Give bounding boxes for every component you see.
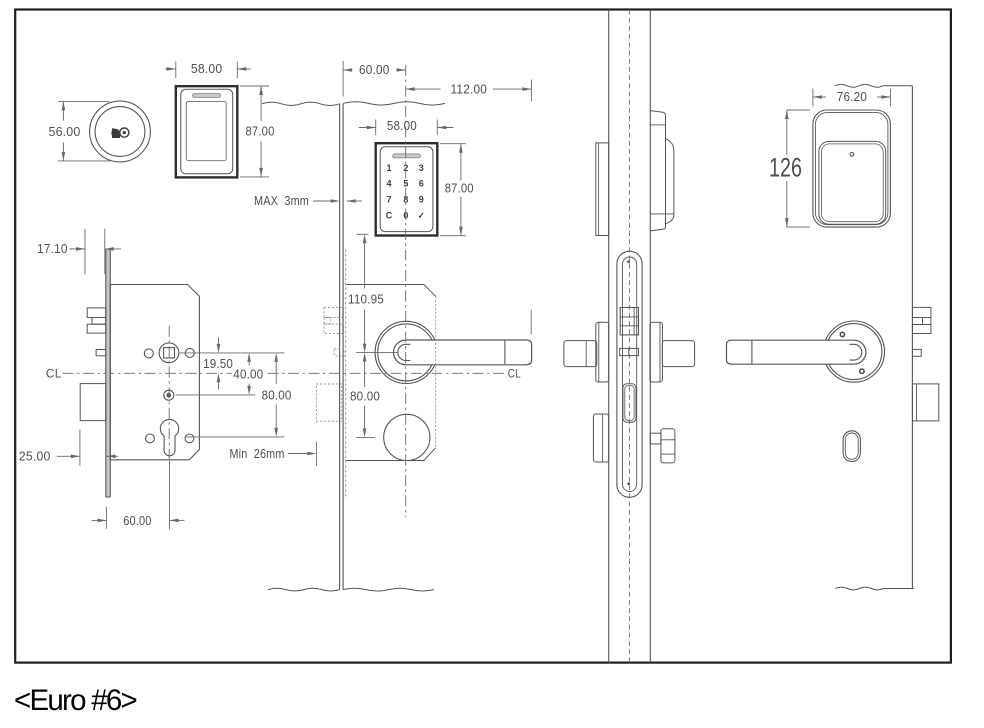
- lever grip cap line (interior view): [751, 341, 753, 364]
- dim 112.00 right ext lower (to lever end): [530, 310, 532, 335]
- door break line bottom (interior view): [835, 587, 883, 590]
- dim 58.00 (keypad) right ext: [436, 120, 438, 136]
- mortise lock case right edge hidden (view B): [435, 296, 437, 448]
- auxiliary bolt face (edge view): [620, 348, 639, 355]
- faceplate bottom screw: [627, 482, 630, 485]
- dim 76.20 right ext: [889, 89, 891, 107]
- svg-text:40.00: 40.00: [233, 366, 263, 381]
- battery cover inner line: [821, 144, 883, 222]
- keypad side profile (edge view): [596, 143, 609, 236]
- centre fixing screw (view C): [164, 390, 174, 400]
- svg-text:1: 1: [386, 163, 391, 173]
- rose side profile right (edge view): [650, 322, 663, 382]
- dim 110.95 line upper: [364, 243, 366, 288]
- faceplate (edge view): [617, 251, 642, 497]
- deadbolt hidden (view B): [316, 384, 341, 421]
- latch bolt hidden (view B): [324, 308, 342, 318]
- dim 126 top ext: [787, 109, 810, 111]
- rose screw upper (interior view): [840, 332, 844, 336]
- dim 112.00 line left: [406, 88, 441, 90]
- svg-text:MAX 3mm: MAX 3mm: [254, 193, 309, 208]
- svg-text:112.00: 112.00: [451, 82, 488, 97]
- svg-text:CL: CL: [46, 367, 62, 381]
- dim 58.00 left extension: [175, 62, 177, 79]
- leader from centre screw: [176, 394, 256, 396]
- svg-text:9: 9: [419, 194, 424, 204]
- reader screen window: [186, 101, 226, 160]
- vertical centerline through keypad (view B): [405, 65, 407, 517]
- faceplate fill (view C): [106, 249, 111, 497]
- door centerline (edge view): [628, 10, 630, 663]
- latch bolt lower (interior view): [912, 325, 931, 334]
- leader from cylinder centre: [186, 436, 285, 438]
- svg-text:3: 3: [419, 163, 424, 173]
- dim 17.10 left ext: [84, 229, 86, 275]
- door left face line (edge view): [608, 10, 610, 663]
- svg-text:17.10: 17.10: [37, 241, 68, 256]
- dim 60.00 left ext: [105, 507, 107, 529]
- faceplate inner plate: [623, 257, 637, 492]
- dim 56.00 bottom extension line: [58, 160, 111, 162]
- battery cover outer: [819, 141, 886, 224]
- keyhole escutcheon inner: [845, 433, 858, 459]
- faceplate top end: [106, 248, 111, 250]
- thumbturn stem (edge view): [650, 433, 661, 444]
- interior unit profile top joint: [650, 124, 665, 126]
- leader from follower centre: [179, 352, 285, 354]
- svg-text:6: 6: [419, 178, 424, 188]
- knob inner circle: [95, 107, 145, 157]
- dim 60.00 left extension (door edge): [342, 61, 344, 97]
- dim 76.20 left ext: [812, 89, 814, 107]
- auxiliary bolt (view C): [96, 350, 106, 356]
- door right face line (edge view): [649, 10, 651, 663]
- euro cylinder protrusion (edge view): [593, 414, 608, 462]
- svg-text:80.00: 80.00: [350, 388, 380, 403]
- tick at keypad bottom (view B): [357, 233, 369, 235]
- svg-text:58.00: 58.00: [387, 118, 417, 133]
- lever rose outer circle (interior view): [823, 321, 884, 382]
- latch bolt upper (interior view): [912, 307, 931, 317]
- latch bolt face (edge view): [620, 308, 638, 335]
- auxiliary bolt (interior view): [912, 349, 921, 356]
- euro cylinder hole (view C): [160, 419, 178, 455]
- svg-text:60.00: 60.00: [359, 62, 390, 77]
- reader outer housing (front view): [176, 86, 238, 177]
- dim 17.10 right ext: [104, 229, 106, 275]
- svg-text:✓: ✓: [418, 211, 426, 221]
- keypad inner face: [380, 147, 433, 232]
- interior unit profile bottom joint: [650, 213, 674, 215]
- door break line top-left of exterior view: [262, 102, 340, 105]
- svg-text:110.95: 110.95: [348, 291, 384, 306]
- door face corner line (exterior view): [342, 104, 344, 590]
- hidden faceplate edge (dotted): [345, 249, 347, 497]
- lever handle (interior view): [727, 340, 866, 364]
- latch bolt lower hidden (view B): [324, 324, 342, 333]
- lever neck right (edge view): [662, 341, 694, 367]
- svg-text:56.00: 56.00: [49, 124, 81, 139]
- extension from cylinder centre down: [169, 461, 171, 530]
- lever rose outer circle (view B): [375, 321, 437, 383]
- keypad LED pill: [393, 154, 421, 158]
- keyhole escutcheon outer: [843, 431, 860, 462]
- vertical centerline (view C): [168, 326, 170, 461]
- svg-text:25.00: 25.00: [19, 449, 51, 464]
- lever rose inner circle (interior view): [826, 324, 882, 380]
- tick at lever centre (view B): [356, 352, 398, 354]
- dim 56.00 dimension line upper: [62, 101, 64, 120]
- latch bevel line: [633, 308, 635, 335]
- fixing hole left of follower: [144, 349, 153, 358]
- dim 56.00 dimension line lower: [62, 143, 64, 161]
- svg-text:87.00: 87.00: [445, 181, 474, 196]
- spindle follower circle (view C): [159, 343, 179, 363]
- lever neck inner arc (interior view): [850, 344, 862, 360]
- svg-text:80.00: 80.00: [262, 387, 292, 402]
- cylinder rose circle (view B): [384, 414, 430, 460]
- cylinder fixing hole right: [185, 434, 194, 443]
- latch bolt middle step (view C): [92, 318, 106, 325]
- dim 87.00 bottom extension: [240, 176, 269, 178]
- knob outer circle (front view of round reader): [90, 101, 151, 162]
- dim 58.00 (keypad) left ext: [375, 120, 377, 136]
- dim 112.00 line right: [493, 88, 532, 90]
- svg-text:87.00: 87.00: [246, 124, 275, 139]
- tick at cylinder rose centre (view B): [356, 436, 375, 438]
- faceplate back edge (view C): [109, 249, 111, 497]
- faceplate bottom end: [106, 496, 111, 498]
- door break line top-right of exterior view: [343, 102, 445, 105]
- centre screw inner: [166, 393, 171, 398]
- key icon inside knob: [108, 125, 129, 139]
- latch bolt upper (view C): [87, 308, 106, 318]
- latch bolt middle step (interior view): [923, 318, 931, 325]
- door break line bottom-left: [268, 588, 340, 591]
- dim 87.00 (keypad) top ext: [440, 143, 466, 145]
- interior unit side profile (edge view): [650, 111, 665, 231]
- auxiliary bolt hidden (view B): [334, 349, 344, 356]
- lever neck left (edge view): [564, 341, 597, 367]
- horizontal centerline CL: [63, 372, 507, 374]
- rose side profile left (edge view): [596, 322, 609, 382]
- dim 58.00 right extension: [236, 62, 238, 79]
- svg-text:4: 4: [386, 178, 391, 188]
- fixing hole right of follower: [185, 348, 194, 357]
- door edge line (exterior view): [339, 104, 341, 590]
- latch bolt lower (view C): [87, 324, 106, 333]
- dim 80.00 (view B) line lower: [364, 406, 366, 429]
- reader LED pill: [193, 94, 221, 98]
- mortise lock case bottom edge (view B): [346, 448, 436, 461]
- dim 80.00 (view B) line upper: [364, 362, 366, 387]
- door edge line (interior view): [911, 86, 913, 589]
- dim 112.00 right ext upper: [530, 79, 532, 101]
- dim 87.00 top extension: [240, 85, 269, 87]
- door break line bottom-right: [343, 588, 434, 591]
- rose screw lower (interior view): [860, 369, 864, 373]
- svg-text:58.00: 58.00: [191, 61, 223, 76]
- svg-text:19.50: 19.50: [203, 356, 233, 371]
- dim 87.00 (keypad) bottom ext: [440, 235, 466, 237]
- svg-text:7: 7: [386, 194, 391, 204]
- dim 25.00 ext line: [79, 430, 81, 466]
- deadbolt (interior view): [912, 384, 938, 421]
- keypad outer housing (on door): [376, 143, 438, 235]
- thumbturn knob (edge view): [661, 429, 675, 463]
- interior escutcheon inner line: [815, 112, 888, 224]
- svg-text:Min 26mm: Min 26mm: [230, 446, 285, 461]
- faceplate front edge (view C): [105, 249, 107, 497]
- deadbolt (view C): [80, 384, 106, 421]
- cylinder fixing hole left: [146, 434, 155, 443]
- euro cylinder slot inner: [625, 386, 634, 421]
- svg-text:60.00: 60.00: [123, 513, 151, 528]
- lever grip cap left: [585, 341, 587, 367]
- dim 56.00 top extension line: [58, 100, 109, 102]
- interior escutcheon outer (rear view): [813, 110, 891, 227]
- interior unit profile bulge: [666, 139, 674, 224]
- spindle square hole (view C): [164, 348, 175, 358]
- lever handle (view B): [394, 340, 532, 365]
- dim 126 bottom ext: [787, 226, 810, 228]
- lever grip cap line (view B): [504, 341, 506, 365]
- svg-text:C: C: [386, 211, 393, 221]
- faceplate top screw: [627, 260, 630, 263]
- euro cylinder slot (edge view): [623, 384, 636, 423]
- lock case outline (view C): [110, 285, 199, 460]
- mortise lock case top edge (view B): [346, 285, 436, 297]
- caption Euro #6: [14, 684, 136, 718]
- latch guard hidden (view B): [324, 318, 330, 325]
- battery cover screw: [850, 153, 854, 157]
- Min 26mm ext line: [315, 442, 317, 466]
- reader inner face: [181, 89, 233, 173]
- lever rose inner circle (view B): [378, 324, 435, 381]
- dim 110.95 line lower: [364, 310, 366, 344]
- svg-text:CL: CL: [508, 367, 521, 381]
- svg-text:76.20: 76.20: [837, 89, 867, 104]
- door break line top (interior view): [835, 84, 883, 87]
- keypad profile inner edge: [598, 143, 600, 236]
- svg-text:126: 126: [769, 153, 802, 183]
- lever neck inner arc (view B): [398, 344, 411, 360]
